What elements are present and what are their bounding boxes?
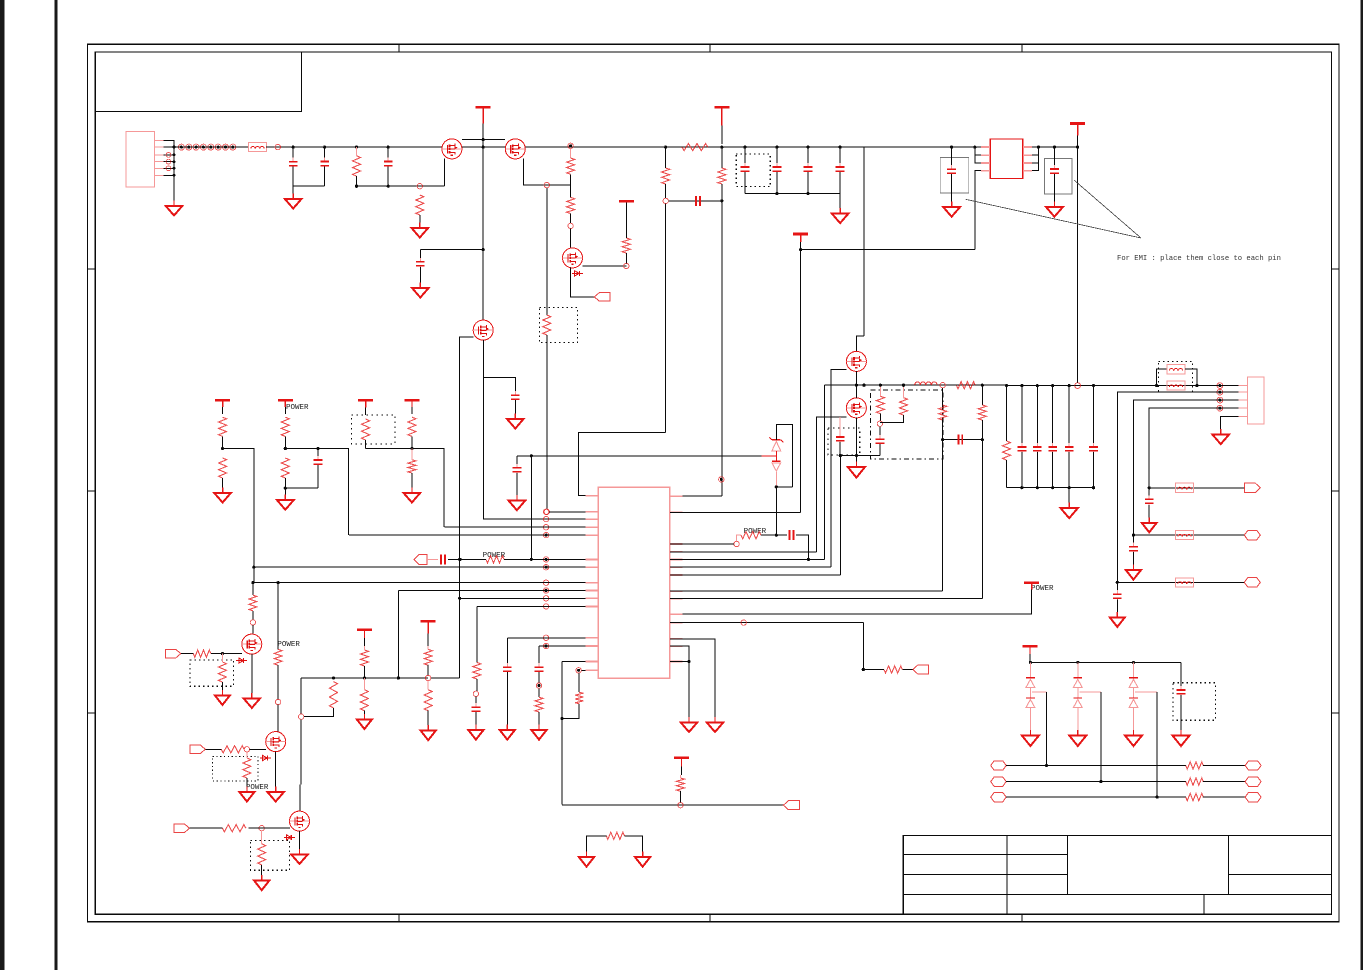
transistor Q7 [242, 634, 262, 654]
junction out rail [1051, 384, 1054, 387]
wire col476 v3 [475, 697, 477, 706]
wire row559 c [460, 558, 486, 560]
circle J2 pin3 [1217, 397, 1223, 403]
resistor Rsig [1186, 762, 1203, 769]
ground Q9 [291, 849, 308, 864]
wire Q3 source [571, 268, 595, 297]
circle 680 row804 [678, 803, 683, 808]
wire C8 bot [776, 172, 778, 194]
resistor R15 [408, 417, 416, 436]
title box top-left [95, 52, 301, 111]
wire row804 [562, 804, 783, 806]
junction rail456 531 [530, 454, 533, 457]
border tick top [709, 44, 711, 52]
circle 428 [425, 675, 430, 680]
border tick left [88, 712, 96, 714]
wire tap down [1156, 692, 1158, 797]
svg-text:POWER: POWER [277, 641, 300, 649]
capacitor Cout [1065, 443, 1074, 455]
wire 721 v1 [721, 147, 723, 168]
connector J1 [126, 131, 155, 187]
junction 840 rail [839, 454, 842, 457]
wire Q5 gate [831, 370, 847, 568]
wire Q6 gnd [855, 456, 857, 465]
power 680 [674, 758, 689, 775]
wire R2 gnd [419, 215, 421, 225]
resistor R1 [353, 156, 361, 176]
circle 570 main [568, 143, 573, 148]
ferrite bead FB2 [1167, 365, 1185, 374]
wire col562 [561, 662, 563, 805]
wire U1 r646 [670, 646, 689, 661]
wire R5 bot lead [625, 253, 627, 263]
circle row544 [734, 541, 739, 546]
ground R43R [635, 852, 650, 867]
capacitor C11 [314, 456, 323, 468]
junction out rail [1005, 384, 1008, 387]
junction Q7 gate [221, 652, 224, 655]
junction 808 row559 [807, 558, 810, 561]
wire 721 pin1r [670, 495, 722, 497]
wire U1 row 606 [477, 605, 586, 607]
wire U2 right pins [1032, 147, 1038, 171]
junction main [323, 146, 326, 149]
junction 398 rail [397, 676, 400, 679]
U2 pin stub left [981, 154, 990, 156]
junction 562 718 [560, 717, 563, 720]
wire col4 gnd [411, 473, 413, 490]
wire Q7 drain v [252, 583, 254, 595]
U1 pin stub R [670, 661, 683, 663]
power +V 483 [476, 107, 491, 139]
dotted box C12 [828, 428, 860, 455]
net tag sig R [1245, 777, 1261, 787]
wire fb cap [943, 439, 983, 441]
wire sig row b [1203, 765, 1245, 767]
wire Q6 src rail [840, 455, 880, 457]
net tag R25 [913, 665, 929, 674]
wire R43 left [587, 836, 607, 854]
dotted box R14 [351, 415, 395, 444]
wire Q9 gate a [190, 827, 223, 829]
U1 pin stub L [586, 645, 599, 647]
wire ocap va [1021, 386, 1023, 446]
page right black bar [1361, 0, 1363, 970]
wire J1 pin [164, 161, 175, 163]
junction rail 864 [862, 384, 865, 387]
ground C15 [1173, 730, 1190, 746]
wire 278 v1 [277, 583, 279, 650]
resistor Rsig [1186, 778, 1203, 785]
capacitor C5 [511, 391, 520, 403]
diode D top [1026, 678, 1035, 688]
resistor R19 [956, 382, 975, 389]
wire Q8 src [275, 751, 277, 789]
junction 460 row559b [459, 558, 462, 561]
diode D top [1129, 678, 1138, 688]
wire row535 tail [796, 535, 808, 559]
wire row cap bot [1116, 599, 1118, 614]
wire U1 row 590 [398, 590, 585, 592]
diode D4 zener hook [769, 437, 783, 442]
ground cap rail [832, 208, 849, 223]
ground col2 [277, 495, 294, 510]
capacitor C7 [741, 163, 750, 175]
circle 665 [663, 198, 668, 203]
wire col2 v2 [284, 478, 286, 488]
label POWER right [1031, 585, 1054, 593]
capacitor C19 [472, 703, 481, 715]
wire R18 bot [880, 415, 904, 422]
junction ocap rail [1020, 486, 1023, 489]
wire Q7 gate b [211, 653, 242, 655]
wire C15 bot [1180, 695, 1182, 733]
wire gnd stem C1 [292, 186, 294, 196]
junction filter row [1148, 486, 1151, 489]
junction R18 rail [902, 384, 905, 387]
wire diode gnd lead [1077, 708, 1079, 733]
junction rail Q5 [855, 384, 858, 387]
wire J1 pin [164, 167, 175, 169]
wire diode mid [1077, 687, 1079, 698]
junction ocap rail [1036, 486, 1039, 489]
wire Q7 drain v2 [252, 611, 254, 620]
resistor R12 [281, 417, 289, 436]
wire C1 lead [292, 147, 294, 161]
resistor R38 [424, 690, 432, 711]
U1 pin stub R [670, 645, 683, 647]
wire row cap lead [1116, 582, 1118, 592]
wire R41 bot [563, 704, 579, 719]
junction 689 [687, 660, 690, 663]
wire U2 pin2 [975, 154, 981, 156]
wire col1 v [222, 436, 224, 448]
wire 483 down [482, 250, 484, 321]
capacitor C17 [513, 464, 522, 476]
net tag sig L [991, 777, 1007, 787]
wire U2 left pins [975, 147, 981, 163]
U1 pin stub R [670, 638, 683, 640]
wire main line D [1032, 146, 1078, 148]
wire U1 row 511 [549, 511, 586, 513]
ground C5 [507, 414, 524, 429]
page divider line [55, 0, 58, 970]
junction out rail [1036, 384, 1039, 387]
circle 539 [536, 683, 541, 688]
wire D5 wrap bot [776, 486, 792, 488]
wire D5 bot lead [775, 472, 777, 487]
Q3 body diode [572, 271, 583, 276]
wire U1 row 535 [349, 534, 585, 536]
wire diode gnd lead [1029, 708, 1031, 733]
U1 pin stub R [670, 613, 683, 615]
wire C13 bot [879, 444, 881, 456]
wire ocap va [1068, 386, 1070, 446]
net tag vin [414, 554, 427, 564]
junction 253 row567 [252, 566, 255, 569]
wire Q7 gate a [181, 653, 194, 655]
ground 715 [707, 717, 723, 732]
U1 pin stub L [586, 590, 599, 592]
resistor R10 [219, 417, 227, 436]
transistor Q8 [266, 732, 286, 752]
wire cap rail [745, 193, 840, 195]
U1 pin stub L [586, 669, 599, 671]
border tick bottom [398, 914, 400, 921]
junction 982 rail [981, 384, 984, 387]
junction tap row [1156, 796, 1159, 799]
wire R35 bot [363, 666, 365, 678]
wire Q8 gate b [250, 748, 266, 750]
resistor R28 [218, 662, 226, 682]
wire C5 gnd [514, 400, 516, 416]
gray box C9 [940, 158, 969, 193]
title block [903, 836, 1331, 915]
wire col476 v2 [476, 679, 478, 691]
ground R40 [532, 725, 547, 740]
wire R28 top [221, 654, 223, 662]
U1 pin stub L [586, 534, 599, 536]
junction col1 [221, 447, 224, 450]
wire D4 wrap top [776, 424, 792, 487]
circle Q7 drain [250, 620, 255, 625]
J1 pin 4 stub [154, 161, 163, 163]
wire row cap bot [1132, 552, 1134, 567]
resistor R33 [258, 844, 266, 865]
junction 776 row535 [775, 534, 778, 537]
wire C1C2 join [293, 185, 325, 187]
border tick left [88, 490, 96, 492]
capacitor C6 [696, 196, 700, 206]
ground R31 [239, 787, 254, 802]
resistor R35 [360, 650, 368, 666]
wire C9 lead [951, 147, 953, 167]
junction 459 row598 [458, 597, 461, 600]
jumper circle [193, 144, 199, 150]
wire col2 to 348 [285, 449, 348, 536]
circle J2 pin1 [1217, 383, 1223, 389]
capacitor C14 [959, 435, 963, 445]
wire cap bot [807, 172, 809, 194]
jumper circle [230, 144, 236, 150]
wire diode top lead [1029, 662, 1031, 678]
ground R2 [412, 223, 429, 238]
power +V 800 [793, 234, 808, 250]
U1 pin stub R [670, 543, 683, 545]
junction R17 rail [879, 384, 882, 387]
circle 301 [299, 714, 304, 719]
wire 800 down [800, 250, 802, 513]
wire C8 lead [776, 147, 778, 166]
junction 531 row559 [530, 558, 533, 561]
wire filter row [1133, 534, 1244, 536]
capacitor Cout [1033, 443, 1042, 455]
wire col539 [538, 646, 540, 664]
resistor R16 [408, 460, 416, 473]
ground J1 [166, 201, 182, 216]
junction ocap gnd [1068, 486, 1071, 489]
wire 864 v [863, 147, 865, 336]
circle U1 row [543, 525, 548, 530]
wire U2 pin4 [975, 171, 981, 250]
ground col4 [404, 488, 421, 503]
jumper circle [208, 144, 214, 150]
wire Q6 gate [816, 417, 846, 552]
junction main [292, 146, 295, 149]
junction 800 [799, 248, 802, 251]
dotted box R6 [539, 307, 577, 342]
capacitor C8 [773, 163, 782, 175]
ground row [1142, 517, 1157, 532]
J1 pin circle [166, 159, 171, 164]
wire 840 up [839, 456, 841, 576]
U1 pin stub L [586, 597, 599, 599]
wire 570 v3 [570, 214, 572, 224]
U1 pin stub L [586, 518, 599, 520]
wire Q9 gate b [249, 827, 290, 829]
net tag sig L [991, 761, 1007, 770]
U1 pin stub R [670, 558, 683, 560]
wire 942 down [942, 388, 944, 405]
wire R33 top [261, 831, 263, 844]
wire main line C [293, 146, 981, 148]
ferrite bead FB3 [1167, 381, 1185, 390]
wire ocap rail [1007, 487, 1094, 489]
svg-text:POWER: POWER [1031, 585, 1054, 593]
jumper circle [223, 144, 229, 150]
circle 579 [576, 668, 581, 673]
dotted box R33 [250, 840, 289, 870]
wire filter row [1149, 487, 1244, 489]
power +V 1077 [1070, 124, 1085, 148]
ground out caps [1061, 503, 1078, 519]
wire row cap lead [1132, 535, 1134, 545]
wire R38 top [427, 681, 429, 690]
resistor R26 [249, 595, 257, 611]
junction J1 [172, 146, 175, 149]
diode D bot [1129, 698, 1138, 708]
wire Q6 drain [855, 385, 857, 398]
U1 pin stub L [586, 661, 599, 663]
wire J2 pin4 [1149, 408, 1238, 488]
wire U1 row 637 [507, 637, 585, 639]
U1 pin stub R [670, 495, 683, 497]
wire ocap vb [1068, 452, 1070, 488]
border tick left [88, 268, 96, 270]
wire 531 v [530, 456, 532, 560]
ground R36 [357, 714, 372, 729]
capacitor C3 [384, 158, 393, 170]
junction 459 row559 [458, 558, 461, 561]
wire R18 top [903, 385, 905, 398]
power +V 721 [714, 107, 729, 144]
wire 546 v2 [546, 335, 548, 509]
ground C20 [500, 725, 515, 740]
circle 721 cross [719, 477, 724, 482]
wire R31 gnd [246, 778, 248, 789]
net tag Q7 gate [165, 649, 181, 658]
diode D top [1073, 678, 1082, 688]
wire R1 bot [356, 176, 358, 186]
junction cap row [806, 146, 809, 149]
wire row535 mid [761, 534, 787, 536]
Q8 body diode [260, 755, 271, 760]
dotted box beads [1159, 362, 1193, 393]
U1 pin stub R [670, 598, 683, 600]
resistor R42 [677, 778, 685, 791]
junction 863 [862, 668, 865, 671]
wire col4 v [411, 436, 413, 448]
junction 665 main [664, 146, 667, 149]
junction col4 rail [410, 447, 413, 450]
U2 pin stub right [1023, 170, 1032, 172]
wire 942 mid [942, 420, 944, 440]
wire C11 lead [317, 449, 319, 459]
label POWER q8 [277, 641, 300, 649]
J1 pin 6 stub [154, 174, 163, 176]
circle U1 row [543, 588, 548, 593]
U1 pin stub L [586, 637, 599, 639]
diode D bot [1073, 698, 1082, 708]
wire row544 [670, 543, 734, 545]
circle U1 row [543, 643, 548, 648]
resistor R13 [281, 458, 289, 478]
capacitor Cout [1089, 443, 1098, 455]
wire Q5 source [855, 371, 857, 385]
wire diode rail [1030, 661, 1181, 663]
J2 pin stub [1238, 407, 1247, 409]
resistor R24 [741, 532, 761, 539]
jumper circle [186, 144, 192, 150]
junction 982 cap [981, 438, 984, 441]
net tag row804 [783, 801, 799, 810]
junction bead out [1195, 384, 1198, 387]
resistor R22 [1003, 441, 1011, 460]
U2 pin stub right [1023, 162, 1032, 164]
capacitor C12 [836, 433, 845, 445]
resistor R11 [219, 458, 227, 478]
resistor R41 [575, 692, 583, 704]
junction 721 main [720, 146, 723, 149]
wire Q9 up [300, 678, 302, 714]
wire R38 gnd [427, 711, 429, 728]
wire col3 to 443 [366, 449, 444, 528]
Q9 body diode [284, 835, 295, 840]
wire R28 gnd [221, 682, 223, 692]
junction main [355, 146, 358, 149]
power +V 626 [619, 201, 634, 204]
wire R36 top [363, 678, 365, 690]
wire C3 bot [387, 167, 389, 187]
power col364 [357, 630, 372, 646]
wire U1 row 527 [444, 526, 585, 528]
resistor R32 [222, 825, 246, 832]
capacitor C15 [1177, 686, 1186, 698]
circle U1 row [543, 580, 548, 585]
transistor Q4 [473, 320, 493, 340]
ferrite bead row [1176, 578, 1194, 587]
junction 333 rail [332, 676, 335, 679]
circle J2 pin2 [1217, 389, 1223, 395]
power right rows [1024, 583, 1039, 596]
wire C15 in [1180, 662, 1182, 688]
ground C9 [943, 202, 960, 217]
junction bead in [1155, 384, 1158, 387]
label POWER mid [483, 552, 506, 560]
capacitor [804, 163, 813, 175]
jumper circle [215, 144, 221, 150]
transistor Q9 [290, 811, 310, 831]
